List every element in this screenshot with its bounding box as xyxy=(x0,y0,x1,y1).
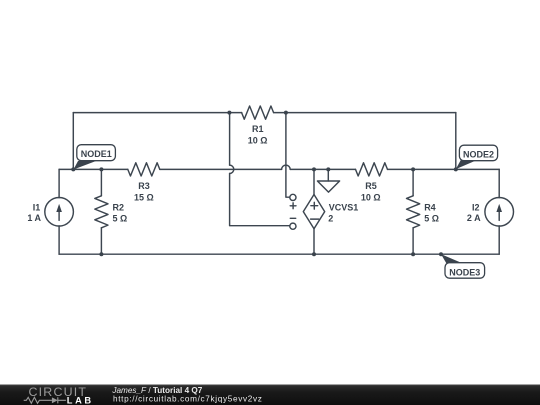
CircuitLab logo resistor-diode graphic xyxy=(24,397,66,403)
svg-text:R4: R4 xyxy=(424,203,436,213)
svg-text:R5: R5 xyxy=(365,181,377,191)
node NODE3 label box xyxy=(445,263,485,279)
svg-text:R3: R3 xyxy=(138,181,150,191)
node junction dot NODE3 xyxy=(439,252,443,256)
current source I2 arrowhead xyxy=(496,204,502,212)
wire top horizontal left segment xyxy=(73,112,241,114)
wire control left vertical upper xyxy=(229,113,231,166)
wire right vertical above I2 xyxy=(498,169,500,197)
svg-text:http://circuitlab.com/c7kjqy5e: http://circuitlab.com/c7kjqy5evv2vz xyxy=(113,394,263,403)
dependent source VCVS1 minus sign xyxy=(311,218,319,220)
node NODE2 label box xyxy=(459,145,497,161)
current source I2 arrow shaft xyxy=(498,210,500,221)
node junction dot ground xyxy=(326,167,330,171)
node NODE2 pointer xyxy=(456,160,478,170)
resistor R4 xyxy=(407,196,420,228)
resistor R5 xyxy=(356,163,388,176)
node junction dot R1 left xyxy=(227,111,231,115)
svg-text:1 A: 1 A xyxy=(27,213,41,223)
current source I1 arrowhead xyxy=(56,204,62,212)
svg-text:R1: R1 xyxy=(252,124,264,134)
resistor R2 xyxy=(95,196,108,228)
wire R2 lower lead xyxy=(100,228,102,254)
current source I2 circle xyxy=(485,198,514,227)
wire hop over vertical at x286 xyxy=(282,165,291,169)
svg-text:I2: I2 xyxy=(472,202,480,212)
resistor R1 xyxy=(242,106,274,119)
svg-text:NODE2: NODE2 xyxy=(463,150,494,160)
wire node2 vertical xyxy=(455,113,457,170)
wire I1 vertical above xyxy=(58,169,60,197)
wire R2 upper lead xyxy=(100,169,102,195)
current source I1 arrow shaft xyxy=(58,210,60,221)
svg-text:10 Ω: 10 Ω xyxy=(248,136,268,146)
svg-text:10 Ω: 10 Ω xyxy=(361,192,381,202)
wire control left vertical lower xyxy=(230,174,290,226)
ground stem xyxy=(327,169,329,181)
svg-text:15 Ω: 15 Ω xyxy=(134,192,154,202)
node VCVS control terminal minus circle xyxy=(290,223,296,229)
svg-text:NODE3: NODE3 xyxy=(449,267,480,277)
wire left vertical (node1 to top) xyxy=(72,113,74,170)
wire mid horizontal far right xyxy=(388,168,500,170)
wire top horizontal right segment xyxy=(274,112,456,114)
wire I1 vertical below xyxy=(58,226,60,254)
svg-text:I1: I1 xyxy=(33,202,41,212)
dependent source VCVS1 stem bottom xyxy=(313,229,315,255)
node junction dot R4 top xyxy=(411,167,415,171)
node junction dot NODE2 xyxy=(454,167,458,171)
dependent source VCVS1 plus sign xyxy=(311,202,318,209)
svg-text:2 A: 2 A xyxy=(467,213,481,223)
node NODE1 pointer xyxy=(74,161,97,170)
wire hop on vertical at y169 xyxy=(230,165,234,173)
resistor R3 xyxy=(128,163,160,176)
wire mid horizontal center segment xyxy=(160,168,282,170)
node NODE3 pointer xyxy=(441,254,465,264)
control minus sign xyxy=(290,217,295,219)
footer bar xyxy=(0,385,540,405)
node NODE1 label box xyxy=(77,145,116,161)
ground triangle xyxy=(317,181,339,192)
current source I1 circle xyxy=(45,198,74,227)
node junction dot R4 bottom xyxy=(411,252,415,256)
wire R4 lower lead xyxy=(412,228,414,254)
node junction dot R2 bottom xyxy=(99,252,103,256)
svg-text:NODE1: NODE1 xyxy=(81,149,112,159)
node junction dot VCVS bottom xyxy=(312,252,316,256)
svg-text:5 Ω: 5 Ω xyxy=(424,214,439,224)
dependent source VCVS1 stem top xyxy=(313,169,315,194)
wire bottom horizontal xyxy=(59,253,499,255)
wire mid horizontal left of R3 xyxy=(59,168,128,170)
node VCVS control terminal plus circle xyxy=(290,194,296,200)
svg-text:R2: R2 xyxy=(113,203,125,213)
svg-text:VCVS1: VCVS1 xyxy=(329,202,359,212)
control plus sign xyxy=(290,203,296,209)
node junction dot R1 right xyxy=(284,111,288,115)
dependent source VCVS1 diamond xyxy=(303,195,324,229)
wire control right vertical xyxy=(286,113,290,198)
node junction dot R2 top xyxy=(99,167,103,171)
node junction dot VCVS top xyxy=(312,167,316,171)
wire right vertical below I2 xyxy=(498,226,500,254)
wire mid horizontal right of hop xyxy=(290,168,355,170)
svg-text:5 Ω: 5 Ω xyxy=(113,214,128,224)
svg-text:LAB: LAB xyxy=(67,396,94,405)
node junction dot NODE1 xyxy=(71,167,75,171)
svg-text:2: 2 xyxy=(328,213,333,223)
wire R4 upper lead xyxy=(412,169,414,195)
